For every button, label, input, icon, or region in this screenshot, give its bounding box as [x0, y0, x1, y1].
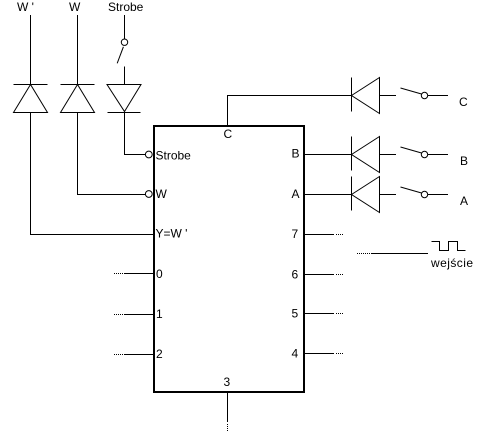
svg-text:2: 2: [156, 347, 163, 361]
wire W' vertical top: [30, 15, 32, 85]
pin 7 stub wire: [305, 234, 344, 236]
svg-text:5: 5: [292, 307, 299, 321]
switch S2 (B): [401, 147, 449, 158]
wire W' to chip pin Y: [31, 113, 154, 235]
wire Strobe middle: [124, 67, 126, 85]
pin 2 stub wire: [114, 354, 153, 356]
bubble on pin Strobe: [145, 151, 152, 158]
svg-text:Strobe: Strobe: [156, 149, 192, 163]
pin 5 stub wire: [305, 313, 344, 315]
switch S1 (C): [401, 88, 449, 99]
wire C from chip to diode: [228, 96, 352, 126]
svg-text:0: 0: [156, 267, 163, 281]
svg-text:W: W: [156, 187, 168, 201]
pin 3 stub wire: [227, 393, 229, 432]
wire C diode out: [380, 95, 397, 97]
IC U1 body: [154, 126, 304, 392]
wire input line: [357, 253, 428, 255]
svg-text:A: A: [292, 187, 300, 201]
svg-text:4: 4: [292, 347, 299, 361]
svg-text:Strobe: Strobe: [108, 0, 144, 14]
svg-text:3: 3: [224, 375, 231, 389]
diode D6 (A): [352, 177, 380, 213]
svg-text:C: C: [459, 95, 468, 109]
svg-text:W ': W ': [17, 0, 34, 14]
switch S4 (Strobe): [117, 39, 128, 63]
diode D4 (C): [352, 78, 380, 114]
diode D3 (Strobe): [107, 85, 141, 113]
svg-text:W: W: [69, 0, 81, 14]
waveform symbol (clock pulses): [432, 242, 466, 251]
wire Strobe vertical top: [124, 15, 126, 39]
diode D5 (B): [352, 137, 380, 173]
pin 0 stub wire: [114, 273, 153, 275]
diode D1 (W'): [14, 85, 48, 113]
svg-text:wejście: wejście: [430, 256, 474, 270]
svg-text:B: B: [292, 147, 300, 161]
bubble on pin W: [145, 191, 152, 198]
pin 1 stub wire: [114, 314, 153, 316]
diode D2 (W): [61, 85, 95, 113]
wire W vertical top: [77, 15, 79, 85]
svg-text:A: A: [460, 194, 468, 208]
wire B diode out: [380, 154, 397, 156]
wire Strobe to chip pin Strobe: [125, 113, 146, 155]
wire W to chip pin W: [78, 113, 146, 195]
switch S3 (A): [401, 187, 449, 198]
wire B from chip to diode: [305, 154, 352, 156]
svg-text:C: C: [224, 127, 233, 141]
svg-text:6: 6: [292, 268, 299, 282]
pin 4 stub wire: [305, 353, 344, 355]
wire A diode out: [380, 194, 397, 196]
svg-text:Y=W ': Y=W ': [156, 227, 188, 241]
svg-text:7: 7: [292, 227, 299, 241]
svg-text:B: B: [460, 154, 468, 168]
svg-text:1: 1: [156, 307, 163, 321]
wire A from chip to diode: [305, 194, 352, 196]
pin 6 stub wire: [305, 274, 344, 276]
